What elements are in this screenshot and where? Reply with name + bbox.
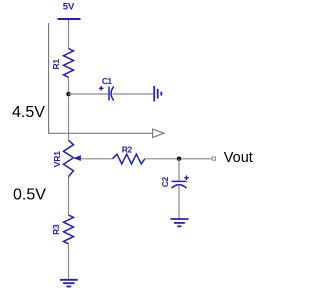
svg-text:VR1: VR1: [52, 151, 62, 167]
wire: [81, 158, 113, 160]
wire: [113, 93, 154, 95]
resistor R1: [64, 49, 74, 78]
wire: [69, 93, 110, 95]
node: [177, 157, 182, 162]
svg-text:R1: R1: [51, 59, 61, 70]
wire: [145, 158, 212, 160]
svg-text:R2: R2: [122, 144, 133, 154]
potentiometer VR1: [64, 140, 81, 176]
svg-text:R3: R3: [51, 224, 61, 235]
wire: [178, 185, 180, 219]
wire: [68, 244, 70, 279]
ground: [154, 86, 161, 102]
resistor R3: [64, 215, 74, 244]
ground: [171, 219, 189, 226]
wire: [68, 177, 70, 215]
annotation arrow: [49, 23, 164, 138]
wire: [178, 159, 180, 181]
wire: [68, 77, 70, 140]
svg-text:4.5V: 4.5V: [12, 104, 45, 121]
svg-text:C1: C1: [102, 76, 113, 86]
svg-text:Vout: Vout: [224, 150, 253, 166]
node: [66, 92, 71, 97]
svg-text:0.5V: 0.5V: [13, 187, 46, 204]
svg-text:C2: C2: [160, 176, 170, 187]
terminal Vout: [212, 157, 215, 160]
wire: [68, 20, 70, 49]
capacitor C1: [99, 86, 114, 101]
ground: [60, 280, 78, 287]
capacitor C2: [172, 176, 189, 189]
resistor R2: [113, 154, 145, 164]
power rail 5V: [58, 18, 81, 20]
svg-text:5V: 5V: [63, 2, 75, 13]
